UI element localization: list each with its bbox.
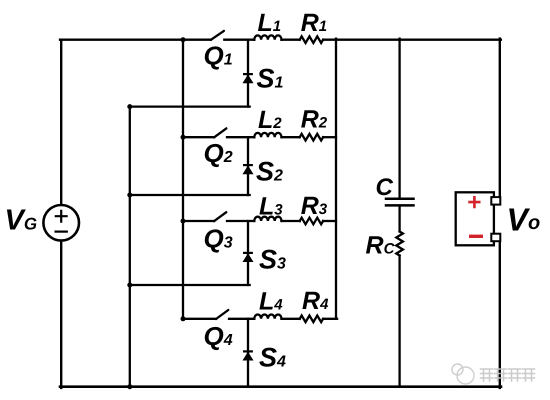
wire S4 branch vertical <box>247 319 249 387</box>
wire return 3 <box>130 284 250 286</box>
wire RC to bottom <box>398 256 400 387</box>
wire ground bus <box>129 107 131 387</box>
svg-text:R3: R3 <box>301 192 328 220</box>
watermark text <box>481 369 535 381</box>
diode S2 <box>243 165 253 174</box>
wire switch Q3 to node <box>227 220 254 222</box>
svg-text:R1: R1 <box>301 9 327 37</box>
source VG <box>43 205 79 241</box>
switch Q1 <box>211 31 224 40</box>
inductor L4 <box>254 314 281 318</box>
svg-text:S2: S2 <box>256 157 283 187</box>
wire Q3 contact <box>183 220 214 222</box>
svg-text:VG: VG <box>5 205 38 237</box>
wire S3 branch vertical <box>247 221 249 285</box>
resistor R4 <box>300 316 323 323</box>
wire Q4 contact <box>183 318 216 320</box>
wire switch Q2 to node <box>227 136 254 138</box>
node dot ground bus return 1 <box>127 104 132 109</box>
node dot ground bus return 2 <box>127 193 132 198</box>
switch Q2 <box>214 128 226 137</box>
resistor R1 <box>300 36 323 43</box>
battery VO <box>456 192 501 245</box>
node dot ground bus return 3 <box>127 283 132 288</box>
wire C branch top <box>398 39 400 199</box>
svg-text:L3: L3 <box>259 193 283 221</box>
wire L1 to R1 <box>282 39 300 41</box>
wire Q bus <box>182 40 184 319</box>
node dot Q bus row 2 <box>181 135 186 140</box>
wire left rail top <box>60 40 62 205</box>
wire R4 to output bus <box>323 318 337 320</box>
wire left rail bottom <box>60 241 62 388</box>
svg-text:S3: S3 <box>259 245 286 275</box>
node dot Q bus row 3 <box>181 219 186 224</box>
inductor L3 <box>254 217 281 221</box>
wire L2 to R2 <box>282 136 300 138</box>
svg-text:o: o <box>528 212 540 234</box>
wire L3 to R3 <box>282 220 300 222</box>
svg-text:L1: L1 <box>258 9 282 37</box>
watermark logo <box>452 364 474 384</box>
wire return 1 <box>130 105 250 107</box>
svg-text:R2: R2 <box>301 106 328 134</box>
wire right rail bottom <box>499 238 501 388</box>
wire Q2 contact <box>183 136 214 138</box>
svg-text:L2: L2 <box>258 106 282 134</box>
svg-text:V: V <box>507 202 531 238</box>
wire R3 to output bus <box>323 220 336 222</box>
node dot top wire / Q bus <box>181 37 186 42</box>
svg-text:R4: R4 <box>302 287 329 315</box>
wire S2 branch vertical <box>247 137 249 195</box>
wire bottom rail <box>60 385 501 388</box>
svg-text:Q4: Q4 <box>204 321 233 351</box>
wire right rail top <box>499 39 501 201</box>
resistor R2 <box>300 134 323 141</box>
inductor L2 <box>254 133 281 137</box>
diode S3 <box>243 253 253 262</box>
wire C to RC <box>398 206 400 232</box>
svg-text:S1: S1 <box>257 64 284 94</box>
svg-text:L4: L4 <box>259 288 283 316</box>
diode S1 <box>243 74 253 83</box>
svg-text:RC: RC <box>366 232 396 260</box>
svg-text:Q3: Q3 <box>204 224 233 254</box>
svg-text:Q1: Q1 <box>204 41 233 71</box>
resistor RC <box>396 232 403 256</box>
diode S4 <box>243 351 253 360</box>
node dot Q bus row 4 <box>181 316 186 321</box>
switch Q4 <box>216 310 228 319</box>
wire L4 to R4 <box>282 318 300 320</box>
resistor R3 <box>300 218 323 225</box>
wire R1 to right rail <box>323 39 501 41</box>
wire switch Q1 to node <box>224 39 254 41</box>
node dot ground bus bottom <box>127 384 132 389</box>
wire S1 branch vertical <box>247 40 249 107</box>
svg-text:S4: S4 <box>259 343 286 373</box>
inductor L1 <box>254 35 281 39</box>
svg-text:Q2: Q2 <box>204 138 233 168</box>
wire switch Q4 to node <box>229 318 254 320</box>
switch Q3 <box>214 212 226 221</box>
wire output bus <box>335 39 337 319</box>
wire return 2 <box>130 194 250 196</box>
wire top input segment <box>60 39 211 41</box>
svg-text:C: C <box>376 174 394 201</box>
wire R2 to output bus <box>323 136 336 138</box>
capacitor C <box>386 199 414 206</box>
